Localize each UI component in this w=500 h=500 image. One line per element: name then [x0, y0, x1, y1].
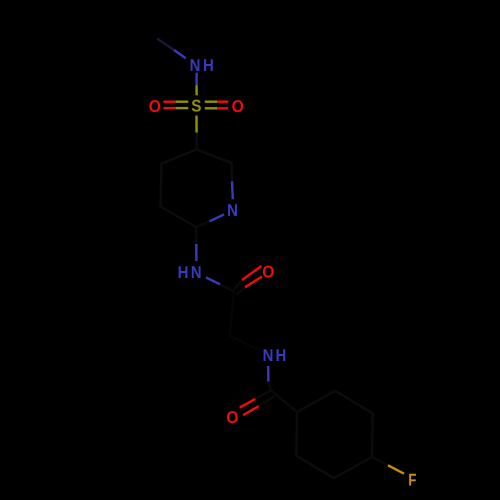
svg-text:O: O: [262, 263, 274, 282]
svg-text:S: S: [191, 97, 201, 116]
svg-text:H: H: [276, 346, 287, 365]
svg-text:N: N: [191, 263, 202, 282]
svg-text:F: F: [408, 471, 416, 490]
svg-text:O: O: [232, 97, 244, 116]
svg-text:H: H: [203, 56, 214, 75]
svg-text:N: N: [263, 346, 274, 365]
svg-text:O: O: [149, 97, 161, 116]
svg-text:O: O: [226, 408, 238, 427]
svg-text:N: N: [190, 56, 201, 75]
svg-text:H: H: [178, 263, 189, 282]
svg-text:N: N: [227, 201, 238, 220]
